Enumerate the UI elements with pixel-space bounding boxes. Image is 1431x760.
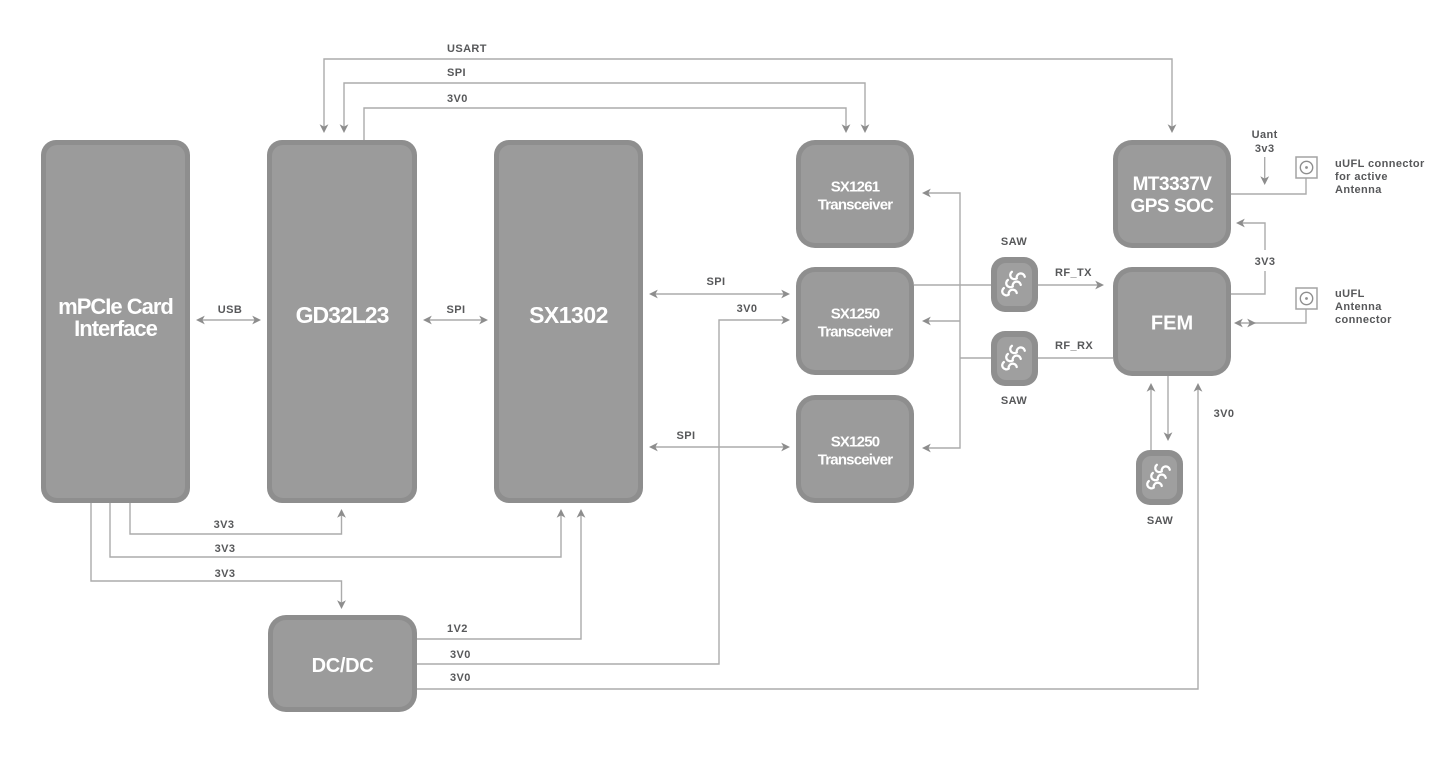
Uant 3v3 arrow	[1264, 157, 1266, 183]
label SAW bottom	[1147, 515, 1173, 527]
arrowhead 3V3 into MT3337V	[1236, 219, 1245, 228]
svg-text:Transceiver: Transceiver	[818, 452, 894, 469]
arrowhead RF_TX into FEM	[1095, 281, 1104, 290]
label RF_TX	[1055, 267, 1092, 279]
svg-text:USART: USART	[447, 43, 487, 55]
wire SAW3 to FEM	[1150, 385, 1152, 450]
svg-text:connector: connector	[1335, 314, 1392, 326]
svg-text:GPS SOC: GPS SOC	[1130, 196, 1214, 217]
uUFL connector 2	[1296, 288, 1317, 309]
svg-text:SAW: SAW	[1001, 236, 1027, 248]
label SAW top	[1001, 236, 1027, 248]
wire FEM to SAW3	[1167, 376, 1169, 439]
svg-text:Transceiver: Transceiver	[818, 324, 894, 341]
block SX1250 Transceiver upper	[796, 267, 914, 375]
arrowhead into SX1250 lower right	[922, 444, 931, 453]
wire 3V3 line 3 (mPCIe to DC/DC)	[91, 503, 342, 607]
wire SPI (SX1302 to SX1250 upper)	[651, 293, 788, 295]
block FEM	[1113, 267, 1231, 376]
svg-text:3V3: 3V3	[215, 568, 236, 580]
label SAW mid	[1001, 395, 1027, 407]
svg-text:SPI: SPI	[677, 430, 696, 442]
arrowhead into SX1250 upper left	[781, 290, 790, 299]
block SX1250 Transceiver lower	[796, 395, 914, 503]
arrowhead 3V0 into SX1261	[842, 124, 851, 133]
block DC/DC	[268, 615, 417, 712]
svg-text:SPI: SPI	[447, 67, 466, 79]
svg-text:SAW: SAW	[1147, 515, 1173, 527]
block SX1302	[494, 140, 643, 503]
svg-text:3V0: 3V0	[450, 672, 471, 684]
svg-text:3V3: 3V3	[215, 543, 236, 555]
svg-text:SX1302: SX1302	[529, 302, 608, 328]
svg-text:Uant: Uant	[1252, 129, 1278, 141]
arrowhead 3V3 into GD32L23 bottom	[337, 509, 346, 518]
svg-text:3v3: 3v3	[1255, 143, 1275, 155]
label USB	[218, 304, 242, 316]
wire 3V0 net (GD32L23 to SX1261)	[364, 108, 846, 140]
label 3V0 at SX1250 upper	[737, 303, 758, 315]
arrowhead SPI into SX1261	[861, 124, 870, 133]
label USART	[447, 43, 487, 55]
svg-text:Antenna: Antenna	[1335, 184, 1382, 196]
svg-text:Transceiver: Transceiver	[818, 197, 894, 214]
svg-text:GD32L23: GD32L23	[296, 302, 389, 328]
label uUFL connector for active Antenna	[1335, 158, 1425, 196]
wire 1V2 DC/DC to SX1302	[417, 511, 581, 639]
svg-text:SX1250: SX1250	[831, 434, 880, 451]
label uUFL Antenna connector	[1335, 288, 1392, 326]
SAW filter 2	[991, 331, 1038, 386]
arrowhead into SX1261 right	[922, 189, 931, 198]
label 3V3 line3	[215, 568, 236, 580]
svg-text:3V3: 3V3	[1255, 256, 1276, 268]
block SX1261 Transceiver	[796, 140, 914, 248]
label 3V3 line2	[215, 543, 236, 555]
label 3V0 mid (DC/DC out)	[450, 649, 471, 661]
svg-text:for active: for active	[1335, 171, 1388, 183]
label 1V2	[447, 623, 468, 635]
svg-text:Antenna: Antenna	[1335, 301, 1382, 313]
wire SPI (SX1302 to SX1250 lower)	[651, 446, 788, 448]
wire RX path SAW to FEM	[1037, 357, 1113, 359]
svg-text:SPI: SPI	[447, 304, 466, 316]
svg-text:SX1261: SX1261	[831, 179, 880, 196]
label RF_RX	[1055, 340, 1093, 352]
wire SPI (GD32L23 to SX1302)	[425, 319, 486, 321]
svg-text:3V0: 3V0	[447, 93, 468, 105]
wire FEM to uUFL connector 2	[1240, 309, 1306, 323]
block GD32L23	[267, 140, 417, 503]
svg-text:FEM: FEM	[1151, 313, 1193, 335]
arrowhead 3V0 into SX1250 upper	[781, 316, 790, 325]
svg-text:uUFL connector: uUFL connector	[1335, 158, 1425, 170]
SAW filter 1	[991, 257, 1038, 312]
svg-text:uUFL: uUFL	[1335, 288, 1365, 300]
label SPI mid	[447, 304, 466, 316]
arrowhead 3V3 into SX1302 bottom	[557, 509, 566, 518]
svg-text:Interface: Interface	[74, 316, 157, 341]
wire 3V0 bottom long (DC/DC to FEM)	[417, 385, 1198, 689]
wire TX path SX1250 to SAW to FEM	[914, 284, 1102, 286]
label SPI top	[447, 67, 466, 79]
svg-text:SAW: SAW	[1001, 395, 1027, 407]
svg-text:RF_RX: RF_RX	[1055, 340, 1093, 352]
label 3V0 top	[447, 93, 468, 105]
arrowhead into SX1302 right lower	[649, 443, 658, 452]
label SPI lower	[677, 430, 696, 442]
arrowhead USART into GD32L23	[320, 124, 329, 133]
wire 3V3 FEM to MT3337V	[1231, 223, 1265, 294]
arrowhead USB left	[196, 316, 205, 325]
label SPI upper	[707, 276, 726, 288]
arrowhead into SX1250 lower left	[781, 443, 790, 452]
svg-text:MT3337V: MT3337V	[1133, 174, 1213, 195]
SAW filter 3	[1136, 450, 1183, 505]
label 3V3 line1	[214, 519, 235, 531]
arrowhead up into FEM bottom (from SAW3)	[1147, 383, 1156, 392]
wire SPI net (GD32L23 to SX1261)	[344, 83, 865, 131]
block MT3337V GPS SOC	[1113, 140, 1231, 248]
arrowhead 1V2 into SX1302	[577, 509, 586, 518]
arrowhead SPI right into SX1302	[479, 316, 488, 325]
arrowhead SPI left into GD32L23	[423, 316, 432, 325]
svg-text:1V2: 1V2	[447, 623, 468, 635]
arrowhead USART into MT3337V	[1168, 124, 1177, 133]
wire 3V3 line 1 (mPCIe to GD32L23)	[130, 503, 342, 534]
wire 3V0 from DC/DC to SX1250 upper	[417, 320, 788, 664]
label Uant 3v3	[1252, 129, 1278, 155]
svg-text:SPI: SPI	[707, 276, 726, 288]
svg-text:DC/DC: DC/DC	[312, 655, 374, 677]
svg-text:USB: USB	[218, 304, 242, 316]
label 3V0 near FEM	[1214, 408, 1235, 420]
wire USB (mPCIe to GD32L23)	[198, 319, 259, 321]
arrowhead into SX1250 upper right	[922, 317, 931, 326]
wire right vertical net to transceivers	[924, 193, 991, 448]
wire MT3337V to uUFL connector 1	[1231, 178, 1306, 194]
arrowhead Uant down	[1260, 176, 1269, 185]
uUFL connector 1	[1296, 157, 1317, 178]
arrowhead FEM-antenna right	[1247, 319, 1256, 328]
wire USART net (GD32L23 to MT3337V)	[324, 59, 1172, 131]
svg-text:3V3: 3V3	[214, 519, 235, 531]
arrowhead USB right	[252, 316, 261, 325]
svg-text:3V0: 3V0	[1214, 408, 1235, 420]
arrowhead down into SAW3	[1164, 432, 1173, 441]
arrowhead 3V0 up into FEM	[1194, 383, 1203, 392]
svg-text:3V0: 3V0	[450, 649, 471, 661]
svg-text:3V0: 3V0	[737, 303, 758, 315]
arrowhead 3V3 down into DC/DC	[337, 600, 346, 609]
wire 3V3 line 2 (mPCIe to SX1302)	[110, 503, 561, 557]
label 3V3 right (with gap)	[1251, 250, 1280, 271]
svg-text:SX1250: SX1250	[831, 306, 880, 323]
label 3V0 low (DC/DC out)	[450, 672, 471, 684]
arrowhead FEM-antenna left	[1234, 319, 1243, 328]
arrowhead SPI into GD32L23	[340, 124, 349, 133]
arrowhead into SX1302 right	[649, 290, 658, 299]
svg-text:RF_TX: RF_TX	[1055, 267, 1092, 279]
block mPCIe Card Interface	[41, 140, 190, 503]
